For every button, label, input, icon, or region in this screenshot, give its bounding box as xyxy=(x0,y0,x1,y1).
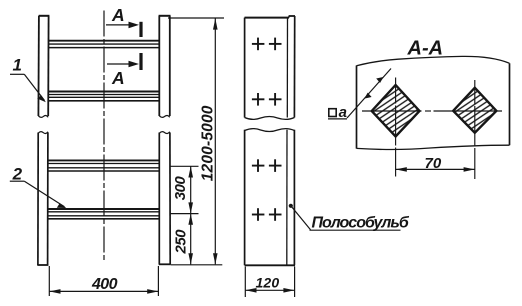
svg-text:a: a xyxy=(339,104,347,121)
svg-text:Полособульб: Полособульб xyxy=(312,214,410,231)
svg-text:1: 1 xyxy=(13,55,22,74)
horizontal centerline through diamonds (dash-dot) xyxy=(362,110,502,112)
square-size "a" dimension line with arrows xyxy=(347,69,391,119)
rung 1 (bulb flat, side view) xyxy=(49,41,160,48)
left rail, upper piece xyxy=(38,16,49,118)
svg-text:1200-5000: 1200-5000 xyxy=(199,105,216,181)
plug-weld cross marks, lower piece xyxy=(252,159,282,221)
vertical centerline of diamond 2 / extension for dim 70 xyxy=(474,80,476,179)
section cut mark, top: arrow and thick bar xyxy=(106,22,141,37)
svg-text:A: A xyxy=(111,5,125,25)
dimension 120: extension lines, dim line, arrows xyxy=(245,267,294,298)
middle plate, upper piece xyxy=(245,16,296,119)
svg-text:A-A: A-A xyxy=(407,38,444,60)
leader of item label 2 xyxy=(10,181,67,208)
square symbol of label "a" with underline xyxy=(329,109,336,117)
dimension 70: dim line and arrows xyxy=(396,167,475,172)
leader of Polosobulb label with start dot xyxy=(289,204,401,231)
plug-weld cross marks, upper piece xyxy=(252,38,282,106)
centerline of ladder (vertical dash-dot) xyxy=(103,11,105,263)
dimension 300 / 250: extension lines and vertical dim line xyxy=(171,166,223,264)
right rail, upper piece xyxy=(159,16,171,118)
rung 3 xyxy=(48,160,159,171)
diamond 2: square rung section, hatched xyxy=(453,88,496,133)
section A-A plate band (wavy broken-out strip) xyxy=(357,56,510,149)
vertical centerline of diamond 1 / extension for dim 70 xyxy=(395,78,397,177)
rung 4 xyxy=(48,209,159,219)
left rail, lower piece xyxy=(37,132,48,265)
right rail, lower piece xyxy=(159,132,171,265)
diamond 1: square rung section, hatched xyxy=(372,85,420,137)
svg-text:400: 400 xyxy=(91,276,118,293)
svg-text:120: 120 xyxy=(256,274,280,290)
svg-text:70: 70 xyxy=(425,155,442,172)
middle plate, lower piece xyxy=(245,129,295,266)
leader of item label 1 xyxy=(10,74,46,102)
svg-text:2: 2 xyxy=(12,165,23,184)
dimension 1200-5000: extension line, dim line, arrows xyxy=(168,18,224,264)
svg-text:300: 300 xyxy=(172,176,189,201)
section cut mark, bottom: arrow and thick bar xyxy=(107,53,141,70)
dimension 400: extension lines, dim line, arrows xyxy=(49,266,158,296)
rung 2 xyxy=(49,92,160,101)
svg-text:A: A xyxy=(111,68,125,88)
svg-text:250: 250 xyxy=(173,229,190,255)
